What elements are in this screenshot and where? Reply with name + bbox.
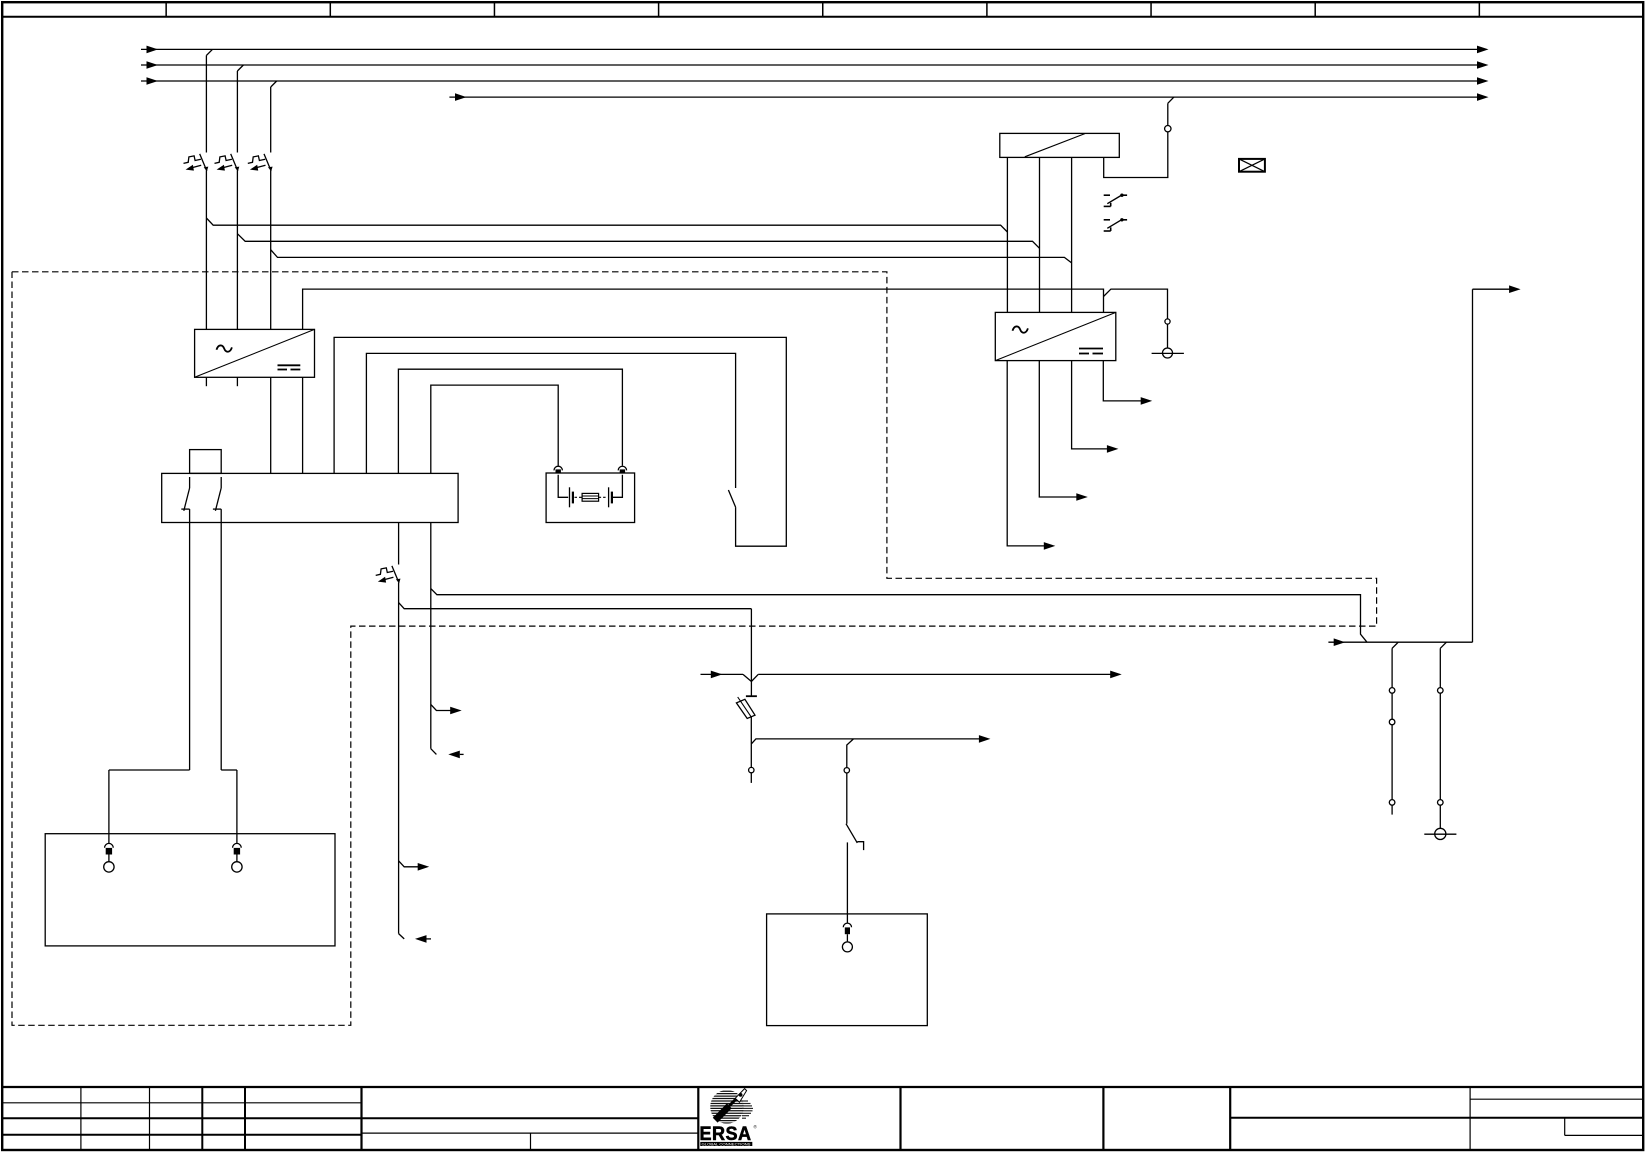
svg-text:GLOBAL CONNECTIONS: GLOBAL CONNECTIONS (702, 1142, 752, 1146)
